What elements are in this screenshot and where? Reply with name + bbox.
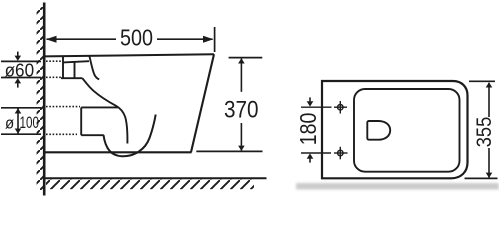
trap outer curve [83, 78, 128, 143]
dim 370 arrow down [238, 146, 245, 151]
wall hatch [37, 7, 44, 190]
dim o60 bottom line [1, 77, 41, 79]
dim o100 arrow up [15, 108, 22, 113]
inlet box left vertical [62, 57, 64, 79]
dim 500 line right [157, 38, 213, 40]
fixing hole top [338, 105, 343, 110]
dotted leader inlet top [46, 60, 62, 62]
seat back slant [89, 55, 99, 79]
dim 370 top extension [229, 57, 263, 59]
inlet box top line [63, 61, 89, 62]
svg-text:370: 370 [224, 97, 259, 124]
inlet box bottom line [61, 77, 83, 79]
svg-text:355: 355 [472, 117, 496, 147]
dim o100 top line [1, 107, 41, 109]
svg-text:180: 180 [295, 113, 321, 146]
dim 370 arrow up [238, 58, 245, 63]
toilet base line [44, 151, 192, 153]
svg-text:100: 100 [20, 113, 40, 132]
dim 355 bottom extension [465, 177, 498, 179]
dim o100 arrow down [15, 129, 22, 134]
bowl bottom curve [104, 115, 156, 157]
toilet front edge [191, 54, 214, 152]
outlet box bottom line [81, 134, 104, 136]
dotted leader inlet bottom [46, 76, 61, 78]
fixing hole bottom centerline [301, 152, 331, 154]
dim o60 arrow down [17, 52, 19, 56]
dim 500 arrow left [46, 36, 57, 43]
dim o100 arrow shaft [17, 109, 19, 134]
scanner shadow smudge [296, 183, 499, 190]
dim 355 arrow down [486, 173, 493, 178]
dim o60 top line [1, 60, 41, 62]
dim 370 shaft top [240, 59, 242, 92]
wall [43, 3, 46, 196]
bowl opening [367, 121, 390, 140]
fixing hole top centerline [301, 106, 332, 108]
dim o60 arrow up [17, 83, 19, 87]
dim 370 shaft bottom [240, 123, 242, 150]
seat outline [354, 89, 460, 172]
toilet top edge [44, 54, 214, 56]
dim 180 arrow down [309, 97, 311, 101]
dim o100 bottom line [1, 133, 41, 135]
dim 500 arrow right [203, 36, 214, 43]
dim 500 extension line [214, 27, 216, 52]
dotted leader outlet bottom [46, 133, 77, 135]
svg-text:ø60: ø60 [5, 61, 34, 81]
dim 355 shaft top [488, 83, 490, 117]
dim 355 top extension [469, 80, 495, 82]
pan outer outline (top view) [322, 81, 468, 178]
inlet box right vertical [74, 62, 76, 78]
outlet box left vertical [80, 107, 82, 135]
fixing hole bottom [338, 150, 343, 155]
floor hatch [46, 180, 254, 190]
dim 500 line left [47, 38, 117, 40]
dotted leader outlet top [46, 106, 80, 108]
floor line [45, 177, 267, 179]
dim 180 arrow up [309, 159, 311, 163]
dim 355 shaft bottom [488, 148, 490, 177]
svg-text:ø: ø [5, 113, 14, 132]
svg-text:500: 500 [120, 25, 153, 51]
dim 370 bottom extension [196, 150, 262, 152]
dim 355 arrow up [486, 82, 493, 87]
outlet box top line [81, 106, 118, 108]
